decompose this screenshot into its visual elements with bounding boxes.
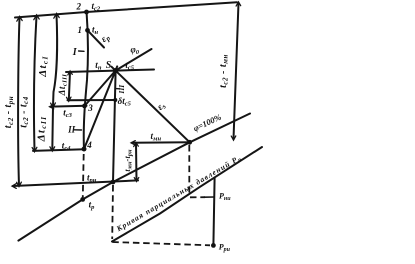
svg-text:II: II [67, 125, 76, 135]
svg-text:tн: tн [92, 25, 99, 37]
svg-text:φ=100%: φ=100% [192, 112, 223, 134]
svg-text:tс2: tс2 [92, 1, 101, 13]
svg-text:2: 2 [76, 1, 82, 11]
svg-text:ΔtсII: ΔtсII [36, 116, 49, 143]
svg-text:φ0: φ0 [131, 45, 140, 57]
svg-text:tс3: tс3 [63, 108, 72, 120]
svg-text:Рни: Рни [219, 191, 231, 202]
svg-text:ΔtсI: ΔtсI [37, 55, 50, 77]
svg-text:tмн-tрн: tмн-tрн [123, 149, 133, 172]
svg-text:δtс5: δtс5 [118, 96, 132, 108]
svg-text:tр: tр [89, 200, 96, 212]
svg-text:S: S [106, 60, 112, 71]
svg-text:ΔtсIII: ΔtсIII [57, 74, 69, 97]
svg-text:tс2 - tмн: tс2 - tмн [218, 54, 230, 88]
svg-text:tс4: tс4 [62, 140, 71, 152]
svg-text:tс2 - tс4: tс2 - tс4 [19, 96, 31, 128]
svg-text:I: I [72, 47, 78, 58]
svg-text:tп: tп [95, 60, 102, 72]
svg-text:Кривая парциальных давлений Рп: Кривая парциальных давлений Рп [114, 153, 243, 235]
svg-text:tрн: tрн [87, 172, 97, 184]
svg-text:III: III [117, 84, 126, 95]
svg-text:1: 1 [78, 25, 83, 35]
svg-text:εр: εр [100, 32, 113, 45]
svg-text:tс2 - tрн: tс2 - tрн [3, 96, 15, 128]
svg-text:tмн: tмн [151, 131, 162, 143]
svg-text:Рри: Рри [219, 242, 231, 253]
svg-text:4: 4 [86, 140, 92, 150]
svg-text:3: 3 [87, 103, 93, 113]
